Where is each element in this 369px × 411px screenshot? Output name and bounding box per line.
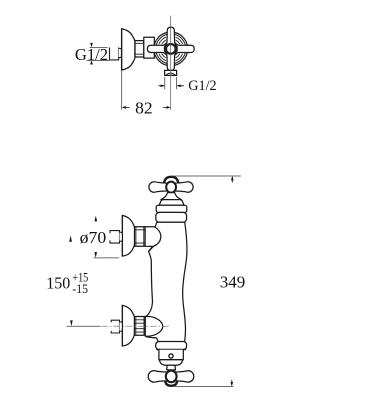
handle rim circle [156, 34, 186, 64]
G1/2 left underline [87, 59, 109, 61]
top handle neck [161, 193, 181, 200]
bottom valve block [159, 350, 183, 360]
arrow right for 82 [163, 106, 171, 109]
hub circle [167, 45, 175, 53]
outlet inner arc [166, 73, 176, 75]
bottom inlet wall face [121, 305, 123, 346]
svg-text:82: 82 [135, 99, 153, 118]
centerline vertical of handle [170, 16, 172, 110]
hex flat line upper [135, 42, 144, 44]
nut thread line 3 [134, 328, 145, 330]
hex nut (side view) [135, 41, 144, 57]
wall face line [121, 29, 123, 70]
arrow down ø70 bottom [94, 252, 97, 258]
wall extension line down [121, 70, 123, 110]
hub outer circle [165, 44, 176, 55]
ø70 bottom extension line [94, 257, 119, 259]
nut thread line 4 [134, 331, 145, 333]
handle ring arc outer [159, 37, 182, 60]
bottom inlet escutcheon [122, 305, 134, 346]
bottom nipple bump [120, 322, 123, 331]
G1/2 left overline [90, 46, 107, 48]
cross handle vertical arm [165, 27, 178, 71]
349 top extension line [173, 175, 241, 177]
bottom inlet union nut [134, 317, 145, 336]
arrow up to G1/2 underline [90, 60, 93, 65]
arrow right to outlet left [159, 85, 165, 88]
horn-to-body slant [149, 246, 154, 251]
nut corner line right [143, 227, 145, 246]
ø70 nipple bump [120, 232, 123, 241]
top collar upper [156, 205, 187, 212]
arrow up 349 top [231, 176, 234, 182]
349 bottom extension line [175, 385, 233, 387]
valve body block [144, 37, 155, 58]
escutcheon bell (side view) [122, 29, 135, 70]
handle ring arc inner [162, 40, 180, 58]
bottom ring lower edge [157, 349, 185, 351]
top inlet union nut [135, 227, 146, 246]
arrow down 349 bottom [231, 380, 234, 386]
bottom handle boss [166, 371, 177, 383]
arrow down to G1/2 overline [90, 43, 93, 48]
svg-text:150: 150 [46, 274, 70, 293]
nut thread line 1 [134, 319, 145, 321]
svg-text:ø70: ø70 [80, 228, 107, 247]
bottom handle bar [148, 371, 194, 383]
top inlet wall face [121, 215, 123, 256]
nut thread line 2 [134, 322, 145, 324]
inlet stub channel [110, 48, 119, 60]
screw [169, 354, 173, 358]
top handle cap [164, 177, 178, 183]
inlet nipple bump [119, 48, 122, 57]
svg-text:349: 349 [220, 273, 246, 292]
outlet extension line left [164, 77, 166, 89]
nut chamfer upper [135, 229, 146, 231]
hub hexagon [166, 44, 175, 55]
arrow left to outlet right [177, 85, 184, 88]
arrow left for 82 [122, 106, 130, 109]
bottom dish [159, 360, 183, 366]
bottom neck [167, 365, 176, 370]
handle outer flange circle [154, 32, 188, 66]
top handle boss [166, 182, 176, 193]
nut corner line right [143, 317, 145, 336]
nut corner line left [135, 227, 137, 246]
svg-text:G1/2: G1/2 [188, 78, 216, 94]
bottom handle cap [165, 382, 177, 386]
top inlet horn [145, 227, 161, 247]
bottom inlet centerline solid part [67, 325, 100, 327]
cross handle horizontal arm [147, 43, 194, 54]
arrow up 150 top [69, 235, 72, 241]
nut chamfer lower [135, 242, 146, 244]
svg-text:-15: -15 [72, 281, 88, 296]
150 stub channel bottom [111, 320, 119, 333]
arrow down 150 bottom [70, 320, 73, 326]
ø70 stub channel [110, 231, 120, 244]
outlet extension line right [176, 77, 178, 89]
top inlet escutcheon [122, 215, 134, 256]
shower outlet [165, 70, 177, 75]
arrow up ø70 top [95, 216, 98, 222]
hex flat line lower [135, 53, 144, 55]
body vase [146, 222, 187, 341]
nut corner line left [135, 317, 137, 336]
bottom collar ring [156, 342, 187, 350]
bottom inlet horn [145, 316, 163, 336]
top handle bar [149, 182, 193, 193]
top bonnet [159, 200, 184, 206]
svg-text:G1/2: G1/2 [75, 45, 108, 64]
bottom inlet centerline dash-dot [102, 325, 171, 327]
top collar ring [156, 212, 187, 222]
